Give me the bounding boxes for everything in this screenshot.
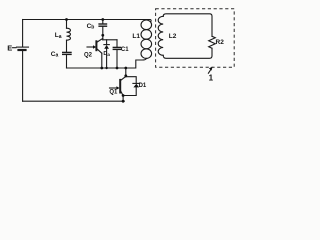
svg-text:Q1: Q1 (109, 90, 118, 96)
svg-text:L1: L1 (132, 33, 140, 40)
svg-text:Q2: Q2 (84, 53, 93, 59)
svg-text:C1: C1 (121, 47, 129, 53)
svg-text:L2: L2 (169, 33, 177, 40)
svg-text:Cb: Cb (87, 23, 95, 31)
svg-text:E: E (7, 44, 12, 53)
svg-text:La: La (55, 32, 62, 40)
svg-text:D1: D1 (139, 83, 147, 89)
svg-text:1: 1 (209, 74, 214, 83)
svg-text:R2: R2 (216, 39, 225, 46)
svg-text:Ca: Ca (51, 51, 59, 59)
svg-text:Da: Da (103, 51, 110, 57)
